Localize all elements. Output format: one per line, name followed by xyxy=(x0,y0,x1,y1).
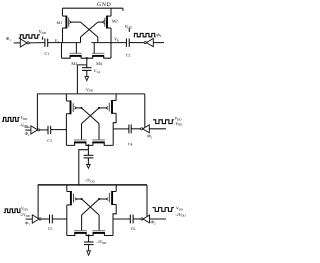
svg-text:C5: C5 xyxy=(48,227,53,231)
label -2VDD stage2 output xyxy=(85,177,96,183)
wire supply tick stage2 left xyxy=(25,126,30,128)
wire inverter input stage1 left xyxy=(14,42,20,44)
wire inverter input stage3 right xyxy=(150,218,166,220)
label C2 xyxy=(126,54,131,58)
inverter stage3 right xyxy=(141,215,150,223)
svg-text:C1: C1 xyxy=(45,52,50,56)
wire GND rail xyxy=(63,8,124,11)
wire cross-coupling X stage3 xyxy=(81,198,101,231)
clock waveform stage1 right xyxy=(134,33,156,36)
svg-text:C3: C3 xyxy=(47,139,52,143)
svg-text:M4: M4 xyxy=(96,61,103,66)
capacitor C1A xyxy=(82,68,92,71)
wire C2 to inverter xyxy=(129,42,144,44)
label C6 xyxy=(131,227,136,231)
label VDD stage1 right xyxy=(125,24,133,30)
label VDD stage3 right xyxy=(176,205,184,211)
clock waveform stage2 right xyxy=(153,120,174,124)
transistor M2 xyxy=(98,8,111,42)
capacitor C2 xyxy=(126,39,129,47)
transistor stage3 lower-left xyxy=(67,219,89,236)
wire VDD tick stage1 left xyxy=(42,37,44,40)
inverter stage3 left xyxy=(32,215,41,223)
node stage2 output junction xyxy=(87,144,89,146)
node wire stage3 left xyxy=(52,218,67,220)
clock waveform stage1 left xyxy=(19,35,40,38)
label C4 xyxy=(128,143,133,147)
wire inverter input stage2 right xyxy=(149,128,166,130)
wire stage1 output down xyxy=(86,58,88,67)
node stage3 output junction xyxy=(88,234,90,236)
label phi1 stage3 xyxy=(25,221,30,227)
label phi1 stage1 xyxy=(6,36,12,42)
wire below stage3 cap xyxy=(88,245,90,251)
wire C4 to inverter stage2 xyxy=(131,128,141,130)
node stage1 output junction xyxy=(86,57,88,59)
label -3VDD stage3 output xyxy=(96,239,107,245)
label C1A xyxy=(94,68,101,74)
capacitor C3 xyxy=(48,126,51,134)
clock waveform stage3 left xyxy=(4,209,21,213)
inverter stage1 right xyxy=(144,39,153,47)
wire inverter to C3 xyxy=(40,129,49,131)
label phi1 stage2 xyxy=(25,131,30,137)
transistor stage3 upper-right xyxy=(99,185,116,219)
label C1 xyxy=(45,52,50,56)
wire rail to right inverter stage2 xyxy=(144,94,146,127)
clock waveform stage2 left xyxy=(2,117,20,121)
wire rail to inverter stage3 xyxy=(37,185,39,219)
inverter stage2 left xyxy=(31,126,40,134)
label M4 xyxy=(96,61,103,66)
label phi2 stage2 xyxy=(147,134,152,140)
capacitor C1 xyxy=(45,39,48,47)
wire inverter to C5 xyxy=(41,218,50,220)
label -VDD stage1 output xyxy=(85,87,94,93)
wire inverter input stage2 left xyxy=(25,129,31,131)
svg-text:C4: C4 xyxy=(128,143,133,147)
wire stage2 output to -2VDD rail xyxy=(79,150,89,185)
node wire stage3 right xyxy=(113,218,130,220)
node VC wire stage2 left xyxy=(51,129,67,131)
label C3 xyxy=(47,139,52,143)
transistor M1 xyxy=(63,8,81,42)
label VA xyxy=(55,38,61,44)
label VDD stage2 left xyxy=(20,115,28,121)
label VDD stage2 right xyxy=(175,115,183,121)
label VDD stage3 left xyxy=(21,206,29,212)
transistor stage3 upper-left xyxy=(67,185,82,219)
label M3 xyxy=(71,61,77,66)
capacitor C5 xyxy=(50,215,53,224)
wire -VDD rail stage2 xyxy=(37,93,145,95)
node VD wire stage2 right xyxy=(113,128,129,130)
wire rail to inverter stage2 xyxy=(36,94,38,130)
svg-text:M3: M3 xyxy=(71,61,77,66)
wire -2VDD rail stage3 xyxy=(38,184,147,186)
transistor stage3 lower-right xyxy=(89,219,113,236)
wire stage1 output to -VDD rail xyxy=(77,65,86,94)
label -VDD stage2 right xyxy=(174,121,183,127)
svg-text:GND: GND xyxy=(97,2,112,8)
label phi2 stage1 xyxy=(156,32,161,38)
svg-text:C2: C2 xyxy=(126,54,131,58)
transistor stage2 upper-right xyxy=(99,94,116,129)
wire stage3 output down xyxy=(88,236,90,243)
arrow stage2 output -2VDD xyxy=(87,165,91,169)
capacitor C4 xyxy=(129,125,131,134)
svg-text:C6: C6 xyxy=(131,227,136,231)
label phi2 stage3 xyxy=(151,220,156,226)
wire VDD tick stage1 right xyxy=(128,28,130,32)
capacitor stage3 storage xyxy=(84,242,94,245)
label VB xyxy=(114,37,119,43)
inverter stage2 right xyxy=(141,125,150,133)
transistor M3 xyxy=(62,43,87,59)
label -2VDD stage3 right xyxy=(175,212,186,218)
wire cross-coupling X stage2 xyxy=(80,107,100,140)
wire rail to right inverter stage3 xyxy=(146,185,148,217)
transistor stage2 lower-left xyxy=(66,130,88,146)
wire below stage2 cap xyxy=(87,158,89,165)
transistor stage2 upper-left xyxy=(66,94,81,130)
transistor M4 xyxy=(87,43,111,59)
wire inverter to C1 xyxy=(29,42,45,44)
wire inverter input stage1 right xyxy=(153,42,164,44)
wire below C1A xyxy=(86,70,88,76)
svg-text:M2: M2 xyxy=(112,19,118,24)
transistor stage2 lower-right xyxy=(88,129,113,146)
node VA wire xyxy=(48,42,81,44)
label -VDD stage2 left xyxy=(19,122,28,128)
label C5 xyxy=(48,227,53,231)
label M1 xyxy=(56,20,62,25)
label -2VDD stage3 left xyxy=(20,212,31,218)
wire C6 to inverter stage3 xyxy=(133,218,141,220)
arrow stage3 output -3VDD xyxy=(87,251,91,255)
arrow stage1 output -VDD xyxy=(85,77,89,81)
node VB wire xyxy=(92,42,127,44)
GND rail label xyxy=(97,2,112,8)
wire cross-coupling X stage1 xyxy=(81,22,98,42)
svg-text:M1: M1 xyxy=(56,20,62,25)
inverter stage1 left xyxy=(20,39,29,47)
wire stage2 output down xyxy=(87,145,89,155)
wire inverter input stage3 left xyxy=(26,218,33,220)
clock waveform stage3 right xyxy=(153,208,175,212)
capacitor C6 xyxy=(130,215,133,224)
capacitor stage2 storage xyxy=(84,155,94,158)
label M2 xyxy=(112,19,118,24)
label VDD stage1 left xyxy=(39,29,47,35)
